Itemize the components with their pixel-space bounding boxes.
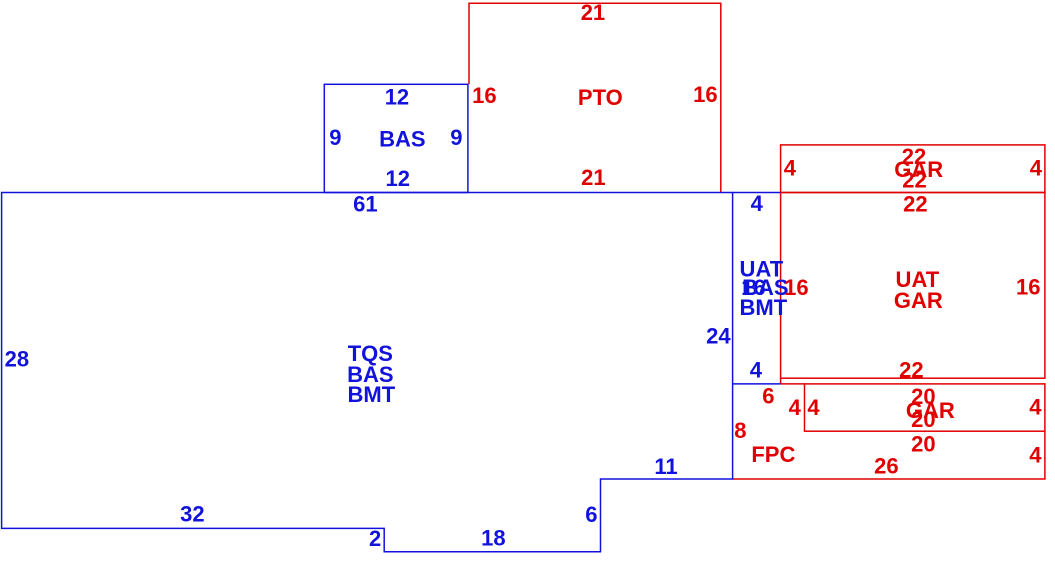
svg-text:4: 4: [807, 395, 820, 420]
wire: UAT GAR to FPC connector: [780, 378, 782, 384]
svg-text:32: 32: [180, 501, 204, 526]
svg-text:22: 22: [902, 168, 926, 193]
svg-text:BMT: BMT: [740, 295, 788, 320]
svg-text:GAR: GAR: [894, 288, 943, 313]
svg-text:6: 6: [585, 502, 597, 527]
wire: main TQS BAS BMT polygon: [2, 193, 733, 552]
svg-text:8: 8: [734, 418, 746, 443]
svg-text:21: 21: [581, 165, 605, 190]
svg-text:16: 16: [472, 83, 496, 108]
svg-text:4: 4: [789, 395, 802, 420]
svg-text:2: 2: [369, 526, 381, 551]
svg-text:18: 18: [481, 526, 505, 551]
svg-text:16: 16: [784, 275, 808, 300]
svg-text:61: 61: [353, 192, 377, 217]
svg-text:6: 6: [762, 384, 774, 409]
svg-text:21: 21: [581, 0, 605, 25]
svg-text:22: 22: [899, 358, 923, 383]
svg-text:BMT: BMT: [348, 382, 396, 407]
svg-text:12: 12: [385, 84, 409, 109]
svg-text:4: 4: [1029, 442, 1042, 467]
svg-text:26: 26: [874, 454, 898, 479]
svg-text:22: 22: [903, 191, 927, 216]
svg-text:24: 24: [706, 324, 731, 349]
svg-text:PTO: PTO: [578, 85, 623, 110]
svg-text:BAS: BAS: [379, 127, 425, 152]
wire: GAR top box: [781, 145, 1045, 193]
svg-text:FPC: FPC: [751, 442, 795, 467]
svg-text:16: 16: [693, 82, 717, 107]
svg-text:20: 20: [911, 431, 935, 456]
svg-text:4: 4: [751, 191, 764, 216]
wire: UAT BAS BMT strip top and bottom: [733, 193, 781, 384]
wire: GAR lower box: [805, 384, 1045, 431]
wire: PTO patio outline: [469, 3, 721, 192]
svg-text:4: 4: [750, 358, 763, 383]
svg-text:28: 28: [5, 347, 29, 372]
svg-text:20: 20: [911, 407, 935, 432]
svg-text:11: 11: [654, 454, 677, 479]
wire: FPC outline: [733, 384, 1045, 479]
wire: UAT GAR box: [781, 193, 1045, 379]
svg-text:4: 4: [1029, 395, 1042, 420]
svg-text:12: 12: [386, 166, 410, 191]
svg-text:9: 9: [450, 125, 462, 150]
wire: BAS box: [324, 84, 468, 192]
svg-text:4: 4: [1030, 155, 1043, 180]
svg-text:4: 4: [784, 155, 797, 180]
svg-text:9: 9: [329, 125, 341, 150]
svg-text:16: 16: [1016, 274, 1040, 299]
